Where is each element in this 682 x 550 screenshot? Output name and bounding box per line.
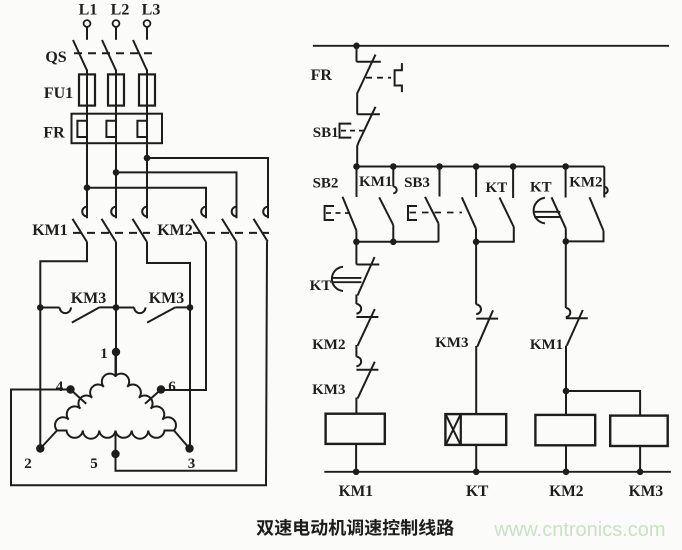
FR heater element pole 2 (106, 121, 116, 137)
contactor KM2 main contact 1 arc (201, 207, 206, 217)
FR heater element pole 3 (137, 121, 147, 137)
svg-text:KT: KT (486, 180, 508, 196)
junction dot node B (473, 239, 480, 246)
FR heater symbol (395, 63, 402, 92)
FR NC contact bar (357, 61, 381, 63)
wire KM2 pole3 to terminal 4 loop (11, 242, 267, 486)
wire FR to KM1 pole 1 (86, 104, 88, 218)
junction dot KM3a right (113, 304, 120, 311)
svg-text:QS: QS (45, 49, 66, 66)
contactor KM1 main contact 1 blade (73, 219, 87, 242)
coil KM1 (326, 414, 385, 444)
svg-text:KM2: KM2 (157, 222, 193, 239)
KT delay NO lower lead (565, 228, 567, 241)
svg-text:2: 2 (24, 456, 32, 472)
SB3 contact blade (425, 197, 439, 224)
junction dot node A left (353, 239, 360, 246)
wire QS to FU1 pole 1 (86, 70, 88, 115)
KM3 NC bar (356, 369, 378, 371)
contactor KM2 main contact 3 blade (254, 219, 268, 242)
wire branch pole2 to KM2 pole2 (116, 172, 237, 218)
SB2 actuator bracket (325, 206, 334, 220)
KT delay NO symbol line1 (534, 211, 560, 213)
SB2 contact blade (343, 197, 357, 231)
wire bottom tap to terminal 5 (115, 431, 117, 455)
contactor KM1 main contact 3 blade (133, 219, 147, 242)
terminal circle L1 (84, 20, 91, 27)
wire KM2 NC to KM3 NC (355, 345, 357, 357)
coil KM3 (610, 416, 668, 446)
wire KM3 NC to KM1 coil (355, 398, 357, 414)
svg-text:www.cntronics.com: www.cntronics.com (493, 519, 665, 541)
junction dot bus x356 (353, 163, 360, 170)
FR trip linkage dashed (366, 77, 391, 79)
KM3 NC col2 hook arc (476, 305, 481, 315)
wire branch pole3 to KM2 pole3 (147, 158, 268, 218)
SB1 NC contact bar (357, 113, 380, 115)
svg-text:SB2: SB2 (313, 176, 339, 192)
svg-text:L2: L2 (111, 2, 130, 19)
FR heater element pole 1 (77, 121, 87, 137)
wire KM2 coil bottom (565, 445, 567, 472)
wire node A rail (356, 241, 438, 243)
KT coil X box divider (460, 414, 462, 445)
KM1 NC blade (567, 310, 583, 346)
SB3 actuator bracket (408, 206, 417, 220)
contactor KM2 main contact 2 blade (222, 219, 236, 242)
fuse FU1 pole 1 (79, 74, 95, 105)
wire KM1 pole1 to node 2 branch (40, 242, 87, 449)
FR NC contact lead (356, 46, 358, 62)
svg-text:KT: KT (530, 180, 552, 196)
svg-text:KT: KT (310, 278, 332, 294)
wire L2 stem (115, 27, 117, 40)
svg-text:1: 1 (100, 346, 108, 362)
wire control bus (357, 166, 605, 168)
switch QS blade pole 3 (133, 40, 147, 71)
wire KM3b right lead (175, 306, 190, 308)
junction dot bus x476 (473, 163, 480, 170)
wire KM3a left lead (40, 307, 59, 309)
wire KM3 NC col2 to KT coil (475, 346, 477, 414)
wire KM3 coil bottom (639, 446, 641, 472)
terminal circle L2 (113, 20, 120, 27)
junction dot bus x439 (436, 163, 443, 170)
switch QS linkage dashed (74, 52, 152, 54)
motor terminal 6 dot (157, 385, 165, 393)
SB3 second contact blade (462, 197, 476, 228)
KT NO blade (500, 198, 514, 228)
contactor KM1 main contact 1 arc (82, 207, 87, 217)
fuse FU1 pole 2 (108, 74, 124, 105)
KM1 NC bar (566, 317, 588, 319)
motor terminal 1 dot (112, 348, 120, 356)
SB1 NC contact blade (357, 107, 375, 167)
wire FR to KM1 pole 2 (115, 104, 117, 218)
switch QS blade pole 2 (102, 40, 116, 71)
KM2 NC hook arc (356, 304, 361, 314)
KT NO lower lead (476, 227, 514, 242)
KM3 NC blade (358, 362, 375, 399)
junction dot KT coil bottom (473, 469, 480, 476)
wire col2 vertical (475, 242, 477, 305)
KT coil X diagonal 2 (446, 415, 460, 444)
svg-text:KM1: KM1 (530, 337, 563, 353)
KM2 NC blade (358, 309, 375, 346)
KM2 aux lead (603, 167, 605, 198)
svg-text:6: 6 (168, 379, 176, 395)
svg-text:5: 5 (90, 456, 98, 472)
wire jumper to KM3 coil (566, 391, 640, 416)
SB3 contact lead (439, 167, 441, 197)
KM1 aux lower lead (392, 225, 394, 242)
svg-text:L1: L1 (79, 2, 98, 19)
motor winding bottom coil right half (116, 431, 175, 439)
KM1 aux blade (379, 197, 393, 225)
KM1 aux lead (392, 167, 394, 187)
contactor KM2 main contact 2 arc (232, 207, 237, 217)
wire QS to FU1 pole 2 (115, 70, 117, 115)
KM1 NC hook arc (566, 308, 571, 317)
wire KM2 pole1 to terminal 6 (161, 242, 206, 391)
KT NO lead (512, 167, 514, 199)
svg-text:3: 3 (188, 456, 196, 472)
wire col3 vertical (565, 241, 567, 308)
KM2 linkage dashed (193, 232, 269, 234)
svg-text:KM3: KM3 (629, 483, 664, 500)
wire KM1 coil bottom (355, 444, 357, 472)
wire KT coil bottom (475, 445, 477, 472)
wire FR to KM1 pole 3 (146, 104, 148, 218)
motor terminal 5 dot (111, 450, 119, 458)
SB3 second contact lead (475, 167, 477, 198)
junction dot top rail (353, 43, 360, 50)
junction dot KM3a left (37, 304, 44, 311)
svg-text:KM2: KM2 (312, 337, 345, 353)
junction dot KT-KM2aux node (563, 238, 570, 245)
SB3 lower lead (438, 224, 440, 242)
junction dot bus x393 (390, 163, 397, 170)
svg-text:4: 4 (56, 379, 64, 395)
KM2 NC bar (356, 316, 378, 318)
svg-text:FR: FR (311, 67, 333, 84)
contactor KM2 main contact 3 arc (263, 207, 268, 217)
SB1 actuator bracket (340, 124, 352, 138)
motor winding right side coil (116, 374, 176, 431)
switch QS blade pole 1 (73, 40, 87, 71)
wire tap 4 diagonal (71, 390, 87, 404)
svg-text:KT: KT (466, 483, 489, 500)
KT delay NC bar (356, 264, 379, 266)
wire KM1 pole2 down to motor apex (115, 242, 117, 377)
svg-text:KM3: KM3 (71, 290, 107, 307)
wire QS to FU1 pole 3 (146, 70, 148, 115)
contactor KM3 contact b blade (147, 307, 175, 322)
wire top supply rail (313, 45, 669, 47)
motor terminal 3 dot (185, 444, 193, 452)
KM3 NC col2 bar (476, 318, 498, 320)
wire KM1 NC to coils (565, 346, 567, 415)
KT delay NO lead (565, 167, 567, 198)
thermal relay FR box (72, 114, 163, 144)
junction dot KM1 coil bottom (353, 469, 360, 476)
motor terminal 4 dot (66, 385, 74, 393)
wire bottom rail (324, 471, 671, 473)
contactor KM1 main contact 2 arc (111, 207, 116, 217)
svg-text:KM1: KM1 (339, 483, 373, 500)
contactor KM1 main contact 2 blade (102, 219, 116, 242)
svg-text:SB1: SB1 (313, 125, 339, 141)
junction dot node A mid (390, 239, 397, 246)
KT delay NO symbol line2 (534, 216, 560, 218)
svg-text:KM3: KM3 (435, 335, 468, 351)
svg-text:L3: L3 (142, 2, 161, 19)
junction dot bus x565 (562, 163, 569, 170)
KT delay NO blade (552, 197, 566, 228)
contactor KM3 contact a blade (72, 307, 100, 322)
svg-text:KM2: KM2 (569, 175, 602, 191)
junction dot bus x513 (510, 163, 517, 170)
coil KM2 (535, 415, 595, 445)
motor winding left side coil (55, 374, 115, 431)
terminal circle L3 (144, 20, 151, 27)
KM2 aux lower lead (566, 231, 604, 242)
junction dot KM3b right (187, 304, 194, 311)
KT delay NC blade (358, 257, 375, 296)
svg-text:FU1: FU1 (44, 85, 73, 102)
KM3 NC hook arc (356, 357, 361, 367)
wire L1 stem (86, 27, 88, 40)
KT delay NC symbol line1 (332, 277, 361, 279)
wire L3 stem (146, 27, 148, 40)
SB3 second lower lead (475, 229, 477, 242)
contactor KM3 contact b arc (134, 307, 145, 313)
KT delay NC symbol line2 (332, 281, 361, 283)
wire KM2 pole2 to terminal 5 (116, 242, 237, 471)
svg-text:FR: FR (43, 125, 65, 142)
SB3 linkage dashed (410, 212, 463, 214)
KM2 aux blade (590, 197, 604, 230)
caption title 双速电动机调速控制线路 (257, 519, 454, 536)
junction dot KM3 coil bottom (637, 469, 644, 476)
contactor KM1 main contact 3 arc (142, 207, 147, 217)
KM2 aux hook arc (604, 187, 607, 194)
motor winding bottom coil left half (57, 431, 116, 439)
wire tap 6 diagonal (145, 390, 161, 404)
fuse FU1 pole 3 (139, 74, 155, 105)
junction node on pole 2 (113, 169, 120, 176)
KM3 NC col2 blade (477, 310, 493, 347)
KT coil X diagonal 1 (446, 415, 460, 444)
svg-text:KM3: KM3 (149, 290, 185, 307)
contactor KM2 main contact 1 blade (192, 219, 206, 242)
wire corner to terminal 3 (174, 431, 190, 449)
svg-text:KM2: KM2 (549, 483, 584, 500)
wire corner to terminal 2 (40, 431, 57, 449)
KT delay NC lead (355, 242, 357, 265)
wire KM3a right lead (100, 306, 116, 308)
wire branch pole1 to KM2 pole1 (87, 188, 206, 219)
SB2 contact lead (356, 167, 358, 198)
SB2 actuator link dashed (326, 212, 351, 214)
KT delay NO symbol arc (534, 198, 545, 224)
contactor KM3 contact a arc (60, 307, 71, 313)
SB2 lower lead (355, 231, 357, 242)
KT delay NC symbol arc (332, 267, 343, 291)
junction dot KM2-KM3 coil split (563, 388, 570, 395)
wire apex to terminal 1 (115, 352, 117, 377)
junction dot KM2 coil bottom (563, 469, 570, 476)
motor terminal 2 dot (36, 444, 44, 452)
svg-text:KM3: KM3 (312, 382, 345, 398)
junction node on pole 1 (84, 184, 91, 191)
KM1 linkage dashed (73, 232, 150, 234)
FR NC contact blade (357, 55, 375, 115)
SB1 actuator link dashed (341, 130, 366, 132)
junction node on pole 3 (144, 155, 151, 162)
wire KM3b left lead (116, 307, 134, 309)
svg-text:KM1: KM1 (32, 222, 68, 239)
svg-text:SB3: SB3 (404, 175, 430, 191)
coil KT with delay X box (445, 414, 506, 445)
KM1 aux hook arc (393, 187, 396, 194)
svg-text:KM1: KM1 (359, 174, 392, 190)
wire KM1 pole3 to node 3 branch (147, 242, 190, 449)
wire KT NC to KM2 NC (355, 295, 357, 305)
